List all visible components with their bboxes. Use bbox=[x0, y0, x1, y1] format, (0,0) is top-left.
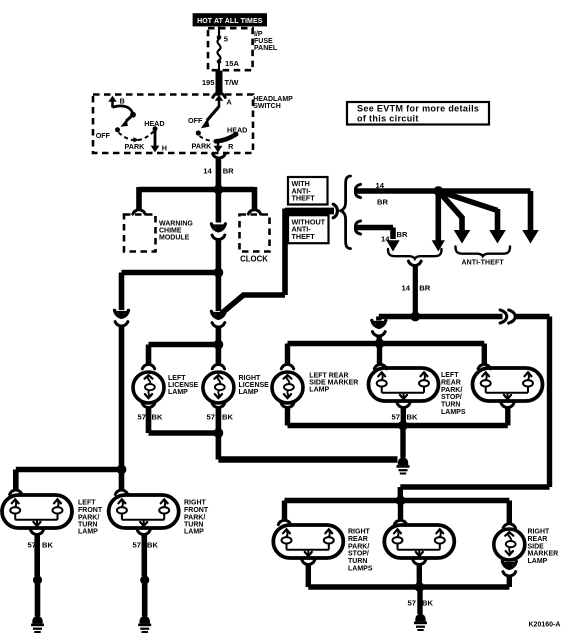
right rear side marker lamp bbox=[494, 529, 525, 560]
cluster ground wire 57 BK bbox=[392, 403, 418, 425]
svg-text:of this circuit: of this circuit bbox=[357, 113, 419, 123]
power feed box HOT AT ALL TIMES bbox=[193, 13, 267, 26]
cluster 1 ground bbox=[302, 560, 315, 587]
svg-text:FRONT: FRONT bbox=[78, 507, 103, 514]
label CLOCK bbox=[240, 254, 268, 263]
svg-text:15A: 15A bbox=[225, 59, 239, 68]
left license lamp bbox=[133, 372, 164, 403]
OFF contact right bbox=[188, 116, 203, 136]
branch to left rear side marker bbox=[281, 344, 293, 369]
head contact arc bbox=[216, 134, 236, 141]
svg-text:BR: BR bbox=[419, 283, 430, 292]
second cluster ground bbox=[501, 403, 514, 425]
svg-text:T/W: T/W bbox=[225, 78, 240, 87]
label HEAD left bbox=[144, 119, 164, 128]
front feed wire down bbox=[119, 326, 125, 470]
svg-text:LEFT: LEFT bbox=[78, 499, 96, 506]
ground wire 57 BK rear bbox=[408, 587, 434, 614]
svg-text:MARKER: MARKER bbox=[528, 551, 559, 558]
inline connector C1 bbox=[211, 224, 225, 240]
switch terminal B bbox=[108, 96, 125, 108]
junction S12 right rear bbox=[396, 496, 406, 506]
female cup below switch bbox=[213, 154, 226, 159]
dashed detent arc right bbox=[200, 136, 214, 141]
svg-text:LAMP: LAMP bbox=[78, 529, 98, 536]
svg-text:57: 57 bbox=[133, 541, 141, 550]
ground G2 bbox=[31, 616, 44, 633]
drop to right rear cluster 1 bbox=[278, 501, 290, 525]
label ANTI-THEFT bbox=[462, 260, 505, 267]
svg-text:RIGHT: RIGHT bbox=[184, 499, 207, 506]
svg-text:THEFT: THEFT bbox=[292, 232, 316, 241]
junction S2 bbox=[214, 268, 224, 278]
junction S3 license bbox=[214, 340, 224, 350]
svg-text:57: 57 bbox=[207, 413, 215, 422]
wire from S4 down to merge bbox=[432, 191, 445, 252]
svg-text:14: 14 bbox=[402, 283, 411, 292]
svg-text:LAMPS: LAMPS bbox=[348, 566, 373, 573]
svg-text:FRONT: FRONT bbox=[184, 507, 209, 514]
svg-text:LAMP: LAMP bbox=[239, 389, 259, 396]
svg-text:BR: BR bbox=[377, 198, 388, 207]
svg-text:MODULE: MODULE bbox=[159, 235, 190, 242]
junction S5 bbox=[410, 312, 420, 322]
splice S10 bbox=[33, 575, 42, 584]
svg-text:195: 195 bbox=[202, 78, 215, 87]
anti-theft diagonal arm 1 bbox=[438, 191, 470, 244]
wire to ground G3 bbox=[142, 584, 148, 616]
inline connector C3 bbox=[211, 311, 225, 327]
svg-text:HOT AT ALL TIMES: HOT AT ALL TIMES bbox=[197, 18, 263, 25]
svg-text:BK: BK bbox=[152, 413, 163, 422]
junction S13 bbox=[415, 582, 425, 592]
svg-text:STOP/: STOP/ bbox=[348, 551, 369, 558]
svg-text:PARK/: PARK/ bbox=[184, 514, 205, 521]
marker ground wire bbox=[281, 403, 294, 425]
diagram id K20160-A bbox=[529, 622, 561, 629]
svg-text:REAR: REAR bbox=[528, 536, 548, 543]
svg-text:BK: BK bbox=[407, 413, 418, 422]
wire 195 T/W bbox=[202, 62, 239, 93]
svg-text:TURN: TURN bbox=[184, 522, 203, 529]
svg-text:57: 57 bbox=[28, 541, 36, 550]
svg-text:FUSE: FUSE bbox=[254, 38, 273, 45]
junction S7 bbox=[214, 428, 224, 438]
svg-text:BK: BK bbox=[422, 599, 433, 608]
svg-text:BK: BK bbox=[42, 541, 53, 550]
front bus to left lamp bbox=[10, 470, 122, 495]
svg-text:WARNING: WARNING bbox=[159, 220, 193, 227]
ground G1 bbox=[397, 457, 410, 474]
svg-text:OFF: OFF bbox=[188, 116, 203, 125]
svg-text:LEFT: LEFT bbox=[168, 375, 186, 382]
svg-text:LICENSE: LICENSE bbox=[239, 382, 270, 389]
wire from hot box to fuse bbox=[218, 26, 220, 37]
svg-text:LAMP: LAMP bbox=[528, 558, 548, 565]
wire to right rear run bbox=[400, 317, 549, 501]
svg-text:RIGHT: RIGHT bbox=[239, 375, 262, 382]
drop to clock bbox=[248, 187, 260, 214]
label HEAD right bbox=[227, 125, 247, 134]
svg-text:SIDE: SIDE bbox=[528, 543, 545, 550]
svg-text:14: 14 bbox=[381, 234, 390, 243]
wire down to right license lamp bbox=[212, 345, 224, 369]
svg-text:BR: BR bbox=[397, 230, 408, 239]
note box See EVTM bbox=[347, 102, 489, 125]
headlamp switch dashed box bbox=[93, 95, 253, 154]
I/P fuse panel dashed box bbox=[208, 28, 253, 70]
wire to ground G1 bbox=[400, 426, 405, 458]
left rear side marker lamp bbox=[272, 372, 303, 403]
wire to junction S3 bbox=[216, 327, 222, 345]
warning chime module dashed box bbox=[124, 215, 156, 252]
junction S4 bbox=[433, 186, 443, 196]
svg-text:TURN: TURN bbox=[441, 402, 460, 409]
label HEADLAMP SWITCH bbox=[253, 96, 293, 110]
branch wire to front lamps bbox=[122, 273, 219, 311]
clock dashed box bbox=[240, 215, 270, 252]
wire down to right front lamp bbox=[115, 470, 127, 495]
tap lower horizontal bbox=[242, 292, 285, 298]
svg-text:PARK: PARK bbox=[125, 142, 146, 151]
ground bus to G1 bbox=[218, 433, 397, 460]
wire from S6 into left rear cluster bbox=[374, 344, 386, 369]
svg-text:14: 14 bbox=[376, 181, 385, 190]
svg-text:LAMP: LAMP bbox=[184, 529, 204, 536]
merge underbrace bbox=[388, 249, 442, 259]
right rear park/stop/turn lamps cluster 1 bbox=[273, 525, 343, 558]
male flare into headlamp switch bbox=[213, 93, 225, 98]
svg-text:57: 57 bbox=[138, 413, 146, 422]
splice S11 bbox=[140, 575, 149, 584]
with/without anti-theft tap: vertical bbox=[282, 209, 288, 296]
svg-text:LEFT: LEFT bbox=[441, 372, 459, 379]
alternatives brace bbox=[341, 176, 351, 249]
svg-text:See EVTM for more details: See EVTM for more details bbox=[357, 104, 479, 114]
left rear cluster second unit bbox=[473, 368, 543, 401]
label RIGHT LICENSE LAMP bbox=[239, 375, 270, 396]
svg-text:LAMPS: LAMPS bbox=[441, 409, 466, 416]
anti-theft diagonal arm 2 bbox=[438, 191, 506, 244]
svg-text:BR: BR bbox=[223, 167, 234, 176]
left front ground 57 BK bbox=[28, 530, 54, 576]
inline connector C4 bbox=[500, 310, 515, 323]
cluster 2 ground bbox=[413, 560, 426, 587]
left front park/turn lamp bbox=[2, 495, 72, 528]
label LEFT REAR PARK/STOP/TURN LAMPS bbox=[441, 372, 466, 416]
drop to right rear side marker bbox=[503, 501, 515, 529]
svg-text:PANEL: PANEL bbox=[254, 45, 278, 52]
fuse F5 15A bbox=[217, 35, 240, 69]
svg-text:A: A bbox=[227, 98, 232, 107]
marker inline connector C6 bbox=[502, 561, 516, 587]
wire to ground G2 bbox=[35, 584, 41, 616]
drop to right rear cluster 2 bbox=[394, 501, 406, 525]
label LEFT FRONT PARK/TURN LAMP bbox=[78, 499, 103, 535]
box WITH ANTI-THEFT bbox=[288, 177, 328, 205]
right front park/turn lamp bbox=[109, 495, 179, 528]
label LEFT REAR SIDE MARKER LAMP bbox=[309, 373, 358, 394]
svg-text:OFF: OFF bbox=[96, 131, 111, 140]
junction S6 bbox=[375, 339, 385, 349]
svg-text:RIGHT: RIGHT bbox=[528, 529, 551, 536]
svg-text:REAR: REAR bbox=[348, 536, 368, 543]
svg-text:TURN: TURN bbox=[348, 558, 367, 565]
ground G3 bbox=[138, 616, 151, 633]
switch terminal R bbox=[214, 140, 235, 153]
switch arm left with pivot bbox=[113, 106, 136, 127]
right license lamp bbox=[203, 372, 234, 403]
svg-text:HEADLAMP: HEADLAMP bbox=[253, 96, 293, 103]
left rear lamps bus bbox=[288, 341, 485, 346]
label LEFT LICENSE LAMP bbox=[168, 375, 199, 396]
label I/P FUSE PANEL bbox=[254, 31, 278, 52]
right rear bus bbox=[285, 498, 510, 503]
svg-text:BK: BK bbox=[222, 413, 233, 422]
svg-text:STOP/: STOP/ bbox=[441, 394, 462, 401]
merged wire cup bbox=[408, 261, 421, 266]
left license ground wire 57 BK bbox=[138, 403, 219, 433]
svg-text:H: H bbox=[162, 143, 167, 152]
right front ground 57 BK bbox=[133, 530, 159, 576]
main wire down from junction S1 bbox=[216, 190, 222, 223]
svg-text:LAMP: LAMP bbox=[309, 386, 329, 393]
inline connector C2 front bbox=[115, 310, 129, 326]
OFF contact left bbox=[96, 127, 120, 140]
box WITHOUT ANTI-THEFT bbox=[288, 215, 329, 243]
svg-text:PARK/: PARK/ bbox=[441, 387, 462, 394]
svg-text:SWITCH: SWITCH bbox=[253, 103, 281, 110]
svg-text:K20160-A: K20160-A bbox=[529, 622, 561, 629]
svg-text:57: 57 bbox=[392, 413, 400, 422]
junction S1 bbox=[214, 185, 224, 195]
svg-text:RIGHT: RIGHT bbox=[348, 529, 371, 536]
svg-text:REAR: REAR bbox=[441, 379, 461, 386]
rear ground bus bbox=[288, 423, 508, 428]
wire to junction S2 bbox=[216, 239, 222, 273]
svg-text:CLOCK: CLOCK bbox=[240, 254, 268, 263]
svg-text:CHIME: CHIME bbox=[159, 227, 182, 234]
svg-text:LAMP: LAMP bbox=[168, 389, 188, 396]
right license ground wire 57 BK bbox=[207, 403, 234, 433]
left rear park/stop/turn lamps cluster bbox=[369, 368, 439, 401]
svg-text:BK: BK bbox=[147, 541, 158, 550]
junction S9 front bbox=[117, 465, 127, 475]
svg-text:PARK/: PARK/ bbox=[348, 543, 369, 550]
switch arm right bbox=[201, 107, 219, 129]
dashed detent arc left bbox=[119, 132, 154, 143]
wire 14 BR without anti-theft bbox=[356, 221, 408, 252]
svg-text:THEFT: THEFT bbox=[292, 194, 316, 203]
label RIGHT REAR SIDE MARKER LAMP bbox=[528, 529, 559, 566]
wire 14 BR merged bbox=[402, 265, 431, 317]
bus wire to modules bbox=[139, 187, 255, 193]
second cluster feed from bus bbox=[478, 344, 490, 369]
svg-text:TURN: TURN bbox=[78, 522, 97, 529]
svg-text:I/P: I/P bbox=[254, 31, 263, 38]
corner down at 378.8 with connector C5 bbox=[372, 317, 386, 344]
right rear ground bus bbox=[308, 584, 509, 589]
svg-text:PARK/: PARK/ bbox=[78, 514, 99, 521]
branch to left license lamp bbox=[142, 345, 218, 369]
right rear cluster 2 bbox=[384, 525, 454, 558]
label PARK right bbox=[192, 141, 213, 150]
svg-text:PARK: PARK bbox=[192, 141, 213, 150]
wire 14 BR from switch bbox=[203, 158, 234, 188]
drop to warning chime module bbox=[133, 187, 145, 214]
label WARNING CHIME MODULE bbox=[159, 220, 193, 241]
tap horizontal to brace bbox=[285, 204, 337, 218]
anti-theft feed right arm bbox=[438, 191, 539, 244]
label RIGHT FRONT PARK/TURN LAMP bbox=[184, 499, 209, 535]
switch terminal H bbox=[151, 126, 167, 152]
tap diagonal into main wire bbox=[222, 295, 244, 313]
anti-theft underbrace bbox=[456, 247, 511, 257]
junction S8 bbox=[398, 421, 408, 431]
svg-text:ANTI-THEFT: ANTI-THEFT bbox=[462, 260, 505, 267]
wire 14 BR with anti-theft bbox=[356, 181, 439, 207]
svg-text:57: 57 bbox=[408, 599, 416, 608]
svg-text:LICENSE: LICENSE bbox=[168, 382, 199, 389]
svg-text:B: B bbox=[120, 96, 125, 105]
main wire into connector C3 bbox=[216, 273, 222, 312]
ground G4 bbox=[414, 614, 427, 631]
switch terminal A bbox=[215, 95, 232, 107]
svg-text:R: R bbox=[228, 142, 234, 151]
label PARK left bbox=[125, 142, 146, 151]
rear feed horizontal bbox=[379, 314, 503, 319]
label RIGHT REAR PARK/STOP/TURN LAMPS bbox=[348, 529, 373, 573]
svg-text:14: 14 bbox=[203, 167, 212, 176]
